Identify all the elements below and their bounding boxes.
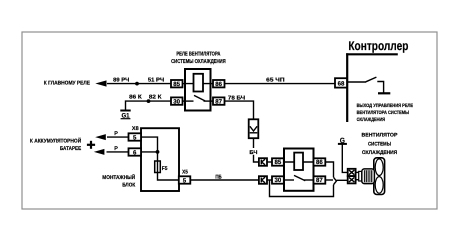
switch contact 30-87 xyxy=(185,100,194,102)
brace junction xyxy=(334,177,337,184)
pin 6 X8 xyxy=(129,148,142,156)
splice dot xyxy=(147,99,151,103)
coil K2 xyxy=(294,153,303,170)
connector before pin 30 K2 xyxy=(259,176,272,184)
wire Р to X8-6 xyxy=(107,146,129,152)
svg-text:Х5: Х5 xyxy=(182,169,188,175)
pin 86 K1 xyxy=(211,80,225,88)
controller internal switch xyxy=(348,77,391,93)
wire РЧ to main relay xyxy=(107,78,171,86)
svg-text:ВЕНТИЛЯТОРА СИСТЕМЫ: ВЕНТИЛЯТОРА СИСТЕМЫ xyxy=(357,110,410,116)
fan blades outline xyxy=(359,158,385,195)
wire ПБ from fuse to relay K2 pin 30 xyxy=(190,174,259,180)
pin 5 X8 xyxy=(129,133,142,141)
svg-text:30: 30 xyxy=(275,177,282,184)
arrow battery wire 1 xyxy=(95,134,106,140)
svg-text:5: 5 xyxy=(133,134,137,141)
svg-text:СИСТЕМЫ: СИСТЕМЫ xyxy=(368,142,391,148)
pin 5 X5 xyxy=(179,176,191,184)
svg-text:ВЕНТИЛЯТОР: ВЕНТИЛЯТОР xyxy=(362,133,398,139)
inline connector on БЧ wire xyxy=(249,119,259,138)
fuse F5 xyxy=(155,161,168,173)
relay K2 body xyxy=(284,149,314,191)
blade upper xyxy=(375,159,383,176)
fan title xyxy=(362,133,398,157)
controller left line xyxy=(346,53,348,122)
border frame xyxy=(22,32,437,209)
wire junction to fan connector xyxy=(336,179,347,181)
svg-text:К АККУМУЛЯТОРНОЙ: К АККУМУЛЯТОРНОЙ xyxy=(30,137,81,144)
controller top line xyxy=(346,53,398,55)
wire 87 K2 to junction xyxy=(325,179,333,181)
wire loop to ПБ feed xyxy=(270,180,334,197)
svg-text:К ГЛАВНОМУ РЕЛЕ: К ГЛАВНОМУ РЕЛЕ xyxy=(44,81,91,87)
relay K1 title xyxy=(171,52,226,65)
svg-text:ПБ: ПБ xyxy=(215,174,221,180)
svg-text:ОХЛАЖДЕНИЯ: ОХЛАЖДЕНИЯ xyxy=(357,117,386,123)
svg-text:68: 68 xyxy=(338,80,345,87)
svg-text:СИСТЕМЫ ОХЛАЖДЕНИЯ: СИСТЕМЫ ОХЛАЖДЕНИЯ xyxy=(171,59,226,65)
svg-text:ВЫХОД УПРАВЛЕНИЯ РЕЛЕ: ВЫХОД УПРАВЛЕНИЯ РЕЛЕ xyxy=(357,103,414,109)
svg-text:Х8: Х8 xyxy=(132,126,139,132)
ground G at fan xyxy=(338,136,348,173)
wire К to ground G1 xyxy=(126,94,172,109)
text МОНТАЖНЫЙ БЛОК xyxy=(102,174,136,188)
svg-text:ОХЛАЖДЕНИЯ: ОХЛАЖДЕНИЯ xyxy=(362,150,398,156)
blade lower xyxy=(375,177,383,194)
pin 86 K2 xyxy=(314,158,326,166)
motor housing xyxy=(362,169,375,184)
pin 87 K2 xyxy=(314,176,326,184)
svg-text:85: 85 xyxy=(173,81,180,88)
wire Р to X8-5 xyxy=(107,131,129,137)
svg-text:89 РЧ: 89 РЧ xyxy=(113,78,129,84)
wire through coil xyxy=(185,83,211,85)
fan connector pair upper xyxy=(348,169,356,176)
motor terminal block xyxy=(359,171,363,181)
pin 30 K2 xyxy=(272,176,284,184)
svg-text:86: 86 xyxy=(215,81,222,88)
controller output label xyxy=(357,103,414,123)
svg-text:Р: Р xyxy=(114,131,118,137)
mounting block box xyxy=(141,128,179,191)
relay K1 body xyxy=(185,69,211,111)
splice dot S xyxy=(135,82,139,86)
svg-text:6: 6 xyxy=(133,149,137,156)
arrow to main relay xyxy=(95,80,106,86)
svg-text:86: 86 xyxy=(316,159,323,166)
controller xyxy=(346,39,408,122)
svg-text:Р: Р xyxy=(114,146,118,152)
svg-text:БАТАРЕЕ: БАТАРЕЕ xyxy=(60,146,82,152)
svg-text:МОНТАЖНЫЙ: МОНТАЖНЫЙ xyxy=(102,174,135,181)
wire 65 ЧП to controller xyxy=(225,77,336,83)
pin 87 K1 xyxy=(211,97,225,105)
motor armature xyxy=(364,170,373,182)
coil K1 xyxy=(194,74,204,92)
svg-text:87: 87 xyxy=(316,177,323,184)
svg-text:БЧ: БЧ xyxy=(249,150,257,156)
battery labels xyxy=(30,137,82,151)
svg-text:51 РЧ: 51 РЧ xyxy=(148,78,164,84)
fan motor wires xyxy=(356,171,359,173)
svg-text:65 ЧП: 65 ЧП xyxy=(266,77,284,83)
pin 85 K2 xyxy=(272,158,284,166)
connector before pin 85 K2 xyxy=(259,158,272,166)
fan connector pair lower xyxy=(348,176,356,183)
svg-text:Контроллер: Контроллер xyxy=(348,39,408,53)
wire БЧ down to relay K2 pin 85 xyxy=(249,138,259,162)
svg-text:86 К: 86 К xyxy=(129,94,142,100)
svg-text:85: 85 xyxy=(275,159,282,166)
svg-text:87: 87 xyxy=(215,98,222,105)
plus symbol xyxy=(87,141,95,149)
svg-text:F5: F5 xyxy=(162,166,168,172)
wire from 86 K2 down to loop xyxy=(325,162,333,177)
svg-text:78 БЧ: 78 БЧ xyxy=(228,96,245,102)
pin 85 K1 xyxy=(171,80,185,88)
pin 68 controller xyxy=(335,78,347,87)
svg-text:82 К: 82 К xyxy=(149,94,162,100)
switch contact 30-87 K2 xyxy=(284,179,294,181)
ground G1 xyxy=(120,111,130,120)
wire 78 БЧ from pin 87 K1 xyxy=(225,96,254,120)
arrow battery wire 2 xyxy=(94,149,105,155)
internal wiring to fuse xyxy=(141,137,179,180)
svg-text:РЕЛЕ ВЕНТИЛЯТОРА: РЕЛЕ ВЕНТИЛЯТОРА xyxy=(176,52,220,58)
pin 30 K1 xyxy=(171,97,185,105)
svg-text:30: 30 xyxy=(173,98,180,105)
svg-text:БЛОК: БЛОК xyxy=(122,182,136,188)
